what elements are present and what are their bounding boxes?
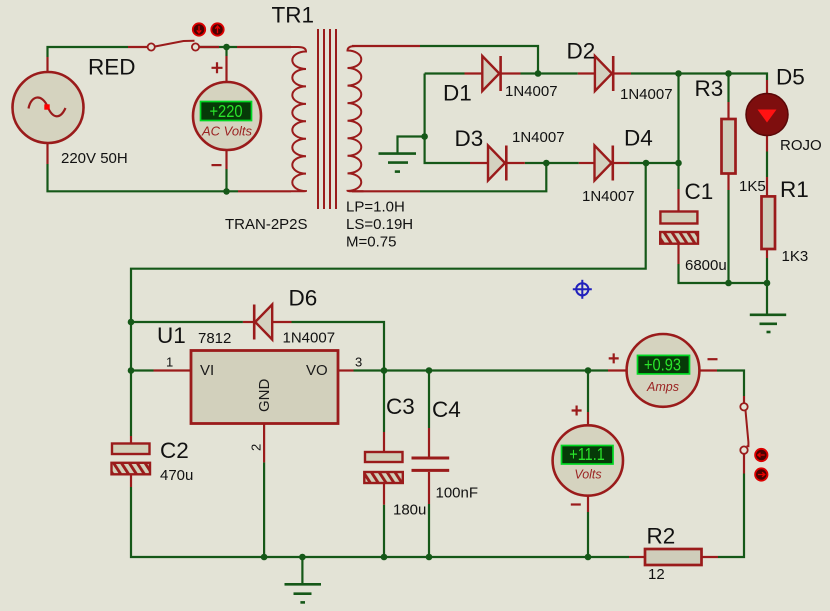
svg-text:7812: 7812 <box>198 330 231 347</box>
svg-text:C4: C4 <box>432 397 461 422</box>
svg-text:D3: D3 <box>455 126 484 151</box>
svg-text:3: 3 <box>355 355 362 370</box>
svg-text:VI: VI <box>200 362 214 379</box>
svg-text:6800u: 6800u <box>685 257 727 274</box>
svg-text:1K3: 1K3 <box>782 248 809 265</box>
svg-text:2: 2 <box>249 444 264 451</box>
svg-text:Amps: Amps <box>646 380 679 394</box>
svg-text:C1: C1 <box>685 179 714 204</box>
svg-text:U1: U1 <box>157 323 186 348</box>
svg-text:M=0.75: M=0.75 <box>346 233 396 250</box>
svg-text:R1: R1 <box>780 177 809 202</box>
svg-text:D4: D4 <box>624 126 653 151</box>
svg-text:AC Volts: AC Volts <box>201 124 253 139</box>
svg-text:TRAN-2P2S: TRAN-2P2S <box>225 216 308 233</box>
svg-text:180u: 180u <box>393 502 426 519</box>
svg-text:1N4007: 1N4007 <box>505 83 558 100</box>
svg-text:C3: C3 <box>386 394 415 419</box>
svg-text:LP=1.0H: LP=1.0H <box>346 199 405 216</box>
svg-text:VO: VO <box>306 362 328 379</box>
svg-text:R2: R2 <box>647 524 676 549</box>
svg-text:1N4007: 1N4007 <box>512 129 565 146</box>
svg-text:D6: D6 <box>289 286 318 311</box>
svg-text:ROJO: ROJO <box>780 137 822 154</box>
svg-text:D2: D2 <box>567 39 596 64</box>
svg-text:LS=0.19H: LS=0.19H <box>346 216 413 233</box>
svg-text:GND: GND <box>256 379 273 413</box>
svg-text:D1: D1 <box>443 80 472 105</box>
svg-text:R3: R3 <box>695 76 724 101</box>
svg-text:+11.1: +11.1 <box>569 444 605 464</box>
svg-text:220V 50H: 220V 50H <box>61 150 128 167</box>
svg-text:+220: +220 <box>210 101 243 121</box>
svg-text:12: 12 <box>648 566 665 583</box>
svg-text:TR1: TR1 <box>272 3 315 28</box>
svg-text:C2: C2 <box>160 438 189 463</box>
svg-text:RED: RED <box>88 55 136 80</box>
svg-text:1N4007: 1N4007 <box>582 188 635 205</box>
svg-text:100nF: 100nF <box>436 485 479 502</box>
svg-text:D5: D5 <box>776 65 805 90</box>
svg-text:1N4007: 1N4007 <box>283 330 336 347</box>
svg-text:1: 1 <box>166 355 173 370</box>
svg-text:Volts: Volts <box>574 468 601 482</box>
svg-text:1K5: 1K5 <box>739 178 766 195</box>
svg-text:470u: 470u <box>160 467 193 484</box>
svg-text:+0.93: +0.93 <box>644 355 681 375</box>
svg-text:1N4007: 1N4007 <box>620 86 673 103</box>
